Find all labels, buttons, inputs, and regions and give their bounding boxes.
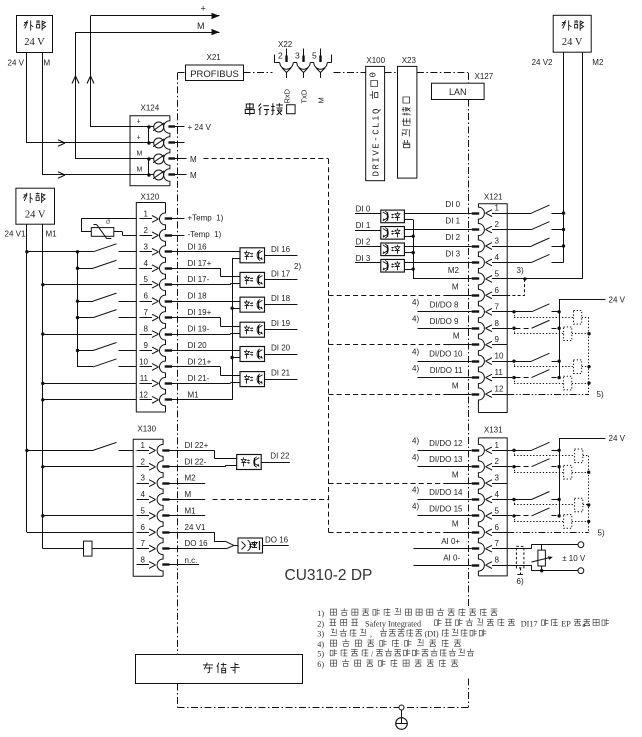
svg-text:DO 16: DO 16 (185, 539, 209, 548)
svg-text:2): 2) (317, 619, 324, 628)
svg-text:4): 4) (412, 437, 419, 446)
svg-text:4: 4 (495, 490, 500, 499)
svg-text:10: 10 (495, 352, 504, 361)
svg-text:DI 22: DI 22 (270, 452, 290, 461)
svg-text:6): 6) (317, 660, 324, 669)
svg-text:DI 17-: DI 17- (188, 275, 210, 284)
svg-text:DI 2: DI 2 (356, 238, 371, 247)
svg-text:CU310-2 DP: CU310-2 DP (285, 567, 373, 584)
svg-text:24 V1: 24 V1 (185, 523, 206, 532)
svg-text:DI 17+: DI 17+ (188, 259, 212, 268)
svg-text:Safety Integrated: Safety Integrated (365, 619, 421, 628)
svg-text:10: 10 (139, 357, 148, 366)
svg-text:DO 16: DO 16 (265, 536, 289, 545)
svg-text:9: 9 (495, 335, 500, 344)
svg-text:+Temp 1): +Temp 1) (188, 213, 224, 222)
svg-text:PROFIBUS: PROFIBUS (190, 69, 239, 80)
svg-text:-Temp 1): -Temp 1) (188, 230, 222, 239)
svg-text:(DI): (DI) (425, 630, 439, 639)
svg-text:M: M (190, 155, 197, 164)
svg-text:DI 19+: DI 19+ (188, 308, 212, 317)
svg-text:DI 16: DI 16 (271, 245, 291, 254)
svg-text:DI 3: DI 3 (445, 249, 460, 258)
svg-text:X131: X131 (484, 426, 503, 435)
svg-text:M: M (137, 167, 143, 174)
svg-text:4: 4 (495, 253, 500, 262)
svg-text:DI 1: DI 1 (356, 221, 371, 230)
svg-text:M: M (452, 283, 459, 292)
svg-text:24 V: 24 V (8, 59, 25, 68)
svg-text:DI 19-: DI 19- (188, 325, 210, 334)
svg-text:24 V1: 24 V1 (5, 230, 26, 239)
svg-text:4): 4) (412, 347, 419, 356)
svg-text:X121: X121 (484, 193, 503, 202)
svg-text:12: 12 (495, 385, 504, 394)
svg-text:6: 6 (141, 523, 146, 532)
svg-text:DI 21+: DI 21+ (188, 357, 212, 366)
svg-text:DI 21: DI 21 (271, 369, 291, 378)
svg-text:X130: X130 (137, 425, 156, 434)
svg-text:6: 6 (144, 292, 149, 301)
svg-text:12: 12 (139, 390, 148, 399)
svg-text:9: 9 (144, 341, 149, 350)
svg-text:5: 5 (495, 269, 500, 278)
svg-text:DI17: DI17 (521, 619, 538, 628)
svg-text:11: 11 (140, 374, 149, 383)
svg-text:M: M (317, 97, 326, 103)
svg-text:AI 0-: AI 0- (443, 554, 460, 563)
svg-text:24 V2: 24 V2 (532, 58, 553, 67)
svg-text:3): 3) (517, 266, 524, 275)
svg-text:3: 3 (495, 474, 500, 483)
svg-text:24 V: 24 V (25, 210, 46, 221)
svg-text:DI 2: DI 2 (445, 233, 460, 242)
svg-text:2: 2 (495, 457, 500, 466)
svg-text:DI 20: DI 20 (271, 344, 291, 353)
svg-text:5: 5 (144, 275, 149, 284)
svg-text:4): 4) (412, 364, 419, 373)
svg-text:X127: X127 (475, 72, 494, 81)
svg-text:X120: X120 (141, 193, 160, 202)
svg-text:1): 1) (317, 609, 324, 618)
svg-text:4): 4) (412, 486, 419, 495)
svg-text:4): 4) (412, 453, 419, 462)
svg-text:0: 0 (368, 72, 378, 77)
svg-text:X23: X23 (402, 56, 417, 65)
svg-text:1: 1 (141, 441, 146, 450)
svg-text:+: + (201, 4, 206, 14)
svg-text:DI 0: DI 0 (356, 205, 371, 214)
svg-text:7: 7 (141, 539, 146, 548)
svg-text:4): 4) (412, 502, 419, 511)
svg-text:7: 7 (495, 539, 500, 548)
svg-text:M1: M1 (185, 506, 197, 515)
svg-text:3: 3 (141, 474, 146, 483)
svg-text:2: 2 (141, 457, 146, 466)
svg-text:DI 3: DI 3 (356, 254, 371, 263)
svg-text:24 V: 24 V (24, 37, 45, 48)
svg-text:3: 3 (295, 51, 300, 61)
svg-text:EP: EP (561, 619, 571, 628)
svg-text:M2: M2 (592, 58, 604, 67)
svg-text:DI/DO 9: DI/DO 9 (430, 317, 459, 326)
svg-text:LAN: LAN (449, 87, 467, 97)
svg-text:DI/DO 12: DI/DO 12 (429, 439, 463, 448)
svg-text:ϑ: ϑ (106, 217, 110, 226)
svg-text:+: + (137, 119, 141, 126)
svg-text:DI/DO 8: DI/DO 8 (430, 300, 459, 309)
svg-text:4): 4) (317, 640, 324, 649)
svg-text:M1: M1 (46, 230, 58, 239)
svg-text:DI 18: DI 18 (271, 294, 291, 303)
svg-text:4: 4 (144, 259, 149, 268)
svg-text:7: 7 (144, 308, 149, 317)
svg-text:5): 5) (598, 528, 605, 537)
svg-text:8: 8 (141, 555, 146, 564)
svg-text:DI 16: DI 16 (188, 242, 208, 251)
svg-text:,: , (370, 630, 372, 639)
svg-text:3: 3 (144, 242, 149, 251)
svg-text:8: 8 (495, 319, 500, 328)
svg-text:1: 1 (495, 441, 500, 450)
svg-text:DI 18: DI 18 (188, 292, 208, 301)
svg-text:M: M (185, 490, 192, 499)
svg-text:+: + (137, 135, 141, 142)
svg-text:8: 8 (144, 325, 149, 334)
svg-text:DI/DO 15: DI/DO 15 (429, 504, 463, 513)
svg-text:11: 11 (495, 368, 504, 377)
svg-text:X22: X22 (278, 40, 293, 49)
svg-text:5: 5 (312, 51, 317, 61)
svg-text:DI/DO 11: DI/DO 11 (430, 366, 463, 375)
svg-text:4: 4 (141, 490, 146, 499)
svg-text:24 V: 24 V (609, 295, 626, 304)
svg-text:6): 6) (517, 577, 524, 586)
svg-text:DI 0: DI 0 (445, 200, 460, 209)
svg-text:2: 2 (278, 51, 283, 61)
svg-text:n.c.: n.c. (185, 556, 198, 565)
svg-text:M: M (190, 171, 197, 180)
svg-text:4): 4) (412, 314, 419, 323)
svg-text:5: 5 (141, 506, 146, 515)
svg-text:6: 6 (495, 523, 500, 532)
svg-text:2: 2 (144, 226, 149, 235)
svg-text:5): 5) (317, 650, 324, 659)
svg-text:+ 24 V: + 24 V (188, 123, 212, 132)
svg-text:24 V: 24 V (609, 434, 626, 443)
svg-text:M: M (452, 470, 459, 479)
svg-text:X124: X124 (141, 104, 160, 113)
svg-text:M1: M1 (188, 390, 200, 399)
svg-text:M: M (452, 520, 459, 529)
svg-text:X100: X100 (366, 56, 385, 65)
svg-text:5: 5 (495, 506, 500, 515)
svg-text:AI 0+: AI 0+ (441, 537, 460, 546)
svg-text:M: M (197, 21, 205, 31)
svg-text:2: 2 (495, 220, 500, 229)
svg-text:DI 21-: DI 21- (188, 374, 210, 383)
svg-text:6: 6 (495, 286, 500, 295)
svg-text:8: 8 (495, 556, 500, 565)
svg-text:3: 3 (495, 237, 500, 246)
svg-text:± 10 V: ± 10 V (562, 554, 586, 563)
svg-text:TxD: TxD (300, 89, 309, 103)
svg-text:M: M (452, 381, 459, 390)
svg-text:1: 1 (495, 204, 500, 213)
svg-text:DI 19: DI 19 (271, 319, 291, 328)
svg-text:DI 20: DI 20 (188, 341, 208, 350)
svg-text:DI/DO 13: DI/DO 13 (429, 455, 463, 464)
svg-text:1: 1 (144, 209, 149, 218)
svg-text:M2: M2 (185, 474, 197, 483)
svg-text:DI 22-: DI 22- (185, 457, 207, 466)
svg-text:3): 3) (317, 630, 324, 639)
svg-text:M: M (453, 332, 460, 341)
svg-text:X21: X21 (207, 53, 222, 62)
svg-text:DI 22+: DI 22+ (185, 441, 209, 450)
svg-text:24 V: 24 V (562, 37, 583, 48)
svg-text:5): 5) (597, 390, 604, 399)
svg-text:7: 7 (495, 302, 500, 311)
svg-text:4): 4) (412, 298, 419, 307)
svg-text:2): 2) (294, 262, 301, 271)
svg-text:DRIVE-CLiQ: DRIVE-CLiQ (372, 107, 382, 177)
svg-text:DI 17: DI 17 (271, 269, 291, 278)
svg-text:DI/DO 14: DI/DO 14 (429, 488, 463, 497)
svg-text:DI/DO 10: DI/DO 10 (429, 350, 463, 359)
svg-text:DI 1: DI 1 (445, 217, 460, 226)
svg-text:M: M (44, 59, 51, 68)
svg-text:M2: M2 (448, 266, 460, 275)
svg-text:RxD: RxD (283, 88, 292, 103)
svg-text:M: M (137, 151, 143, 158)
